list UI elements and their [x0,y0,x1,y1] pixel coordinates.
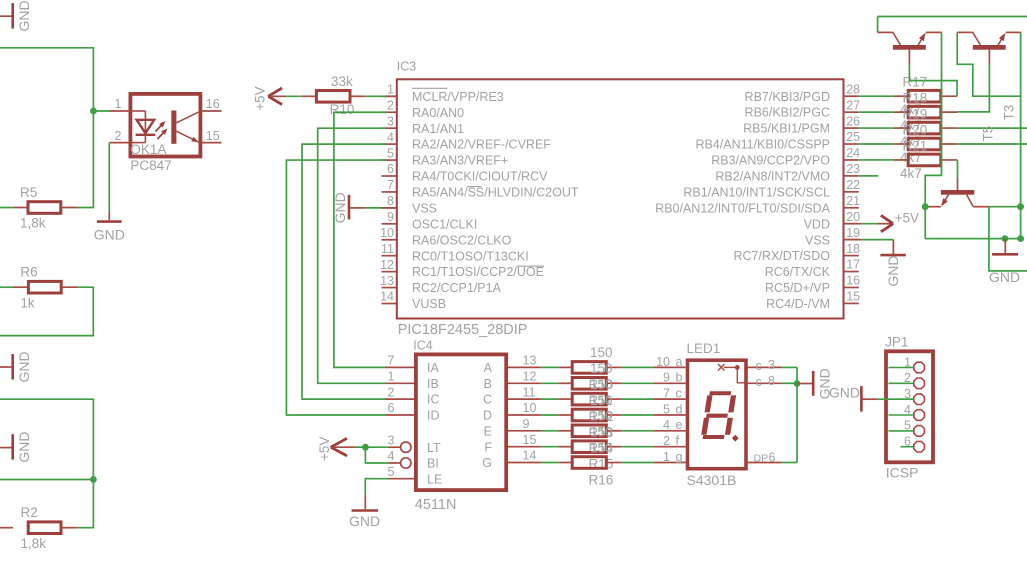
svg-text:RC5/D+/VP: RC5/D+/VP [765,281,830,295]
pin 5 LED1 segment d [654,402,686,416]
resistor R15 150 [541,425,654,472]
pin 2 OK1A [109,129,130,143]
svg-text:5: 5 [388,465,395,479]
pin 10 LED1 segment a [654,355,686,369]
svg-text:3: 3 [768,358,775,372]
wire top net [878,16,1027,18]
transistor T1 [878,17,942,65]
svg-text:MCLR/VPP/RE3: MCLR/VPP/RE3 [412,90,504,104]
pin 23 IC3 RB2/AN8/INT2/VMO [715,162,860,183]
svg-text:14: 14 [523,449,537,463]
optocoupler OK1A box [130,94,200,173]
svg-text:e: e [676,418,683,432]
wire R19 to right edge [957,127,1027,129]
svg-text:16: 16 [846,274,860,288]
resistor R17 4k7 [859,75,957,118]
svg-text:150: 150 [590,425,613,440]
svg-text:12: 12 [380,258,394,272]
node junction right rail [1017,203,1024,210]
svg-text:13: 13 [380,274,394,288]
LED1 S4301B box [687,341,747,488]
svg-text:9: 9 [663,371,670,385]
svg-text:+5V: +5V [252,86,267,110]
pin 26 IC3 RB5/KBI1/PGM [743,114,860,135]
svg-text:D: D [483,409,492,423]
pin 7 IC4 IA [386,354,440,375]
IC U2: IC4 4511N box [413,338,506,512]
svg-text:8: 8 [768,374,775,388]
svg-text:GND: GND [989,269,1020,285]
svg-text:150: 150 [590,377,613,392]
svg-text:a: a [676,355,683,369]
svg-text:8: 8 [387,194,394,208]
svg-text:1,8k: 1,8k [20,216,46,231]
pin 7 IC3 RA5/AN4/SS/HLVDIN/C2OUT [382,178,579,199]
svg-text:28: 28 [846,82,860,96]
ground GND below OK1A [94,222,125,243]
pin 10 IC4 D [483,401,541,422]
transistor Q bottom [928,160,989,207]
svg-text:1: 1 [904,355,911,369]
svg-text:RB2/AN8/INT2/VMO: RB2/AN8/INT2/VMO [715,170,830,184]
svg-text:10: 10 [523,401,537,415]
pin 1 IC3 MCLR/VPP/RE3 [382,83,504,104]
resistor R14 150 [541,409,654,456]
node junction Q emitter [922,203,929,210]
svg-text:RB7/KBI3/PGD: RB7/KBI3/PGD [745,90,830,104]
+5V supply at IC4 [317,437,365,461]
pin 4 IC4 BI [388,449,439,470]
svg-text:15: 15 [523,433,537,447]
svg-text:RB4/AN11/KBI0/CSSPP: RB4/AN11/KBI0/CSSPP [695,138,830,152]
svg-text:15: 15 [846,290,860,304]
pin 13 IC3 RC2/CCP1/P1A [380,274,501,295]
wire R20 to right edge [957,143,1027,145]
pin 15 OK1A [200,129,221,143]
pin 11 IC3 RC0/T1OSO/T13CKI [381,242,529,263]
label T3 [1001,105,1016,121]
svg-text:B: B [484,377,492,391]
svg-text:T3: T3 [1001,105,1016,121]
svg-text:R21: R21 [903,138,928,153]
svg-text:4: 4 [663,418,670,432]
svg-text:LE: LE [427,472,442,486]
connector JP1 box [885,335,933,481]
svg-text:4: 4 [387,130,394,144]
pin 24 IC3 RB3/AN9/CCP2/VPO [711,146,860,167]
wire OK1A pin2 to GND [108,143,110,221]
resistor R16 150 [541,440,654,487]
svg-text:2: 2 [663,434,670,448]
svg-text:22: 22 [846,178,860,192]
label 150 group [590,345,613,360]
svg-text:C: C [483,393,492,407]
svg-text:DP: DP [754,453,769,465]
ground GND below IC4 [349,511,380,530]
svg-text:GND: GND [829,385,860,401]
phototransistor inside OK1A [171,111,200,144]
pin 12 IC3 RC1/T1OSI/CCP2/UOE [380,258,544,279]
pin 1 JP1 [889,355,925,373]
light arrows inside OK1A [156,121,168,139]
svg-text:5: 5 [904,419,911,433]
svg-text:PIC18F2455_28DIP: PIC18F2455_28DIP [398,322,528,338]
svg-text:150: 150 [590,440,613,455]
resistor R18 4k7 [859,91,957,134]
svg-text:R2: R2 [21,505,38,520]
svg-text:10: 10 [380,226,394,240]
pin 14 IC3 VUSB [380,290,446,311]
pin 1 IC4 IB [386,370,439,391]
svg-text:g: g [676,450,683,464]
svg-text:b: b [676,371,683,385]
pin 18 IC3 RC7/RX/DT/SDO [733,242,860,263]
svg-text:R16: R16 [589,472,614,487]
transistor T2 [957,32,1021,64]
wire IC3 pin 5 to IC4 input [286,160,385,415]
svg-text:RC4/D-/VM: RC4/D-/VM [766,297,830,311]
ground GND at LED1 [797,368,833,399]
svg-text:3: 3 [387,114,394,128]
svg-text:33k: 33k [331,74,353,89]
pin 4 JP1 [889,403,925,421]
svg-text:RA5/AN4/SS/HLVDIN/C2OUT: RA5/AN4/SS/HLVDIN/C2OUT [412,186,579,200]
svg-text:9: 9 [523,417,530,431]
wire LED1 cathodes to GND [782,367,797,462]
pin 10 IC3 RA6/OSC2/CLKO [380,226,512,247]
resistor R20 4k7 [859,122,957,165]
svg-text:LED1: LED1 [687,341,721,356]
svg-text:F: F [484,440,492,454]
resistor R10 150 [541,362,654,393]
svg-text:S4301B: S4301B [687,472,737,488]
svg-text:RC6/TX/CK: RC6/TX/CK [765,265,831,279]
svg-text:1: 1 [387,83,394,97]
svg-text:JP1: JP1 [885,335,908,350]
pin 2 JP1 [889,371,925,389]
svg-text:6: 6 [769,451,776,465]
resistor R10 33k [268,74,397,117]
svg-text:ID: ID [427,409,440,423]
wire junction to OK1A pin 1 [93,110,109,112]
svg-text:150: 150 [590,361,613,376]
ground GND at IC3 pin 19 [844,240,906,287]
svg-text:GND: GND [16,431,32,462]
resistor R2 [0,505,77,551]
wire Q collector down-right [989,207,1027,271]
svg-text:11: 11 [523,385,536,399]
svg-text:GND: GND [885,255,901,286]
pin 3 LED1 common c [748,358,782,373]
svg-text:18: 18 [846,242,860,256]
resistor R12 150 [541,377,654,424]
wire IC3 pin 2 to IC4 input [334,112,386,367]
pin 16 IC3 RC5/D+/VP [765,274,860,295]
svg-text:1: 1 [663,450,670,464]
svg-text:c: c [676,387,682,401]
svg-text:5: 5 [663,402,670,416]
+5V supply at IC3 pin 20 [844,211,920,232]
svg-text:150: 150 [590,393,613,408]
svg-text:4: 4 [388,449,395,463]
pin 28 IC3 RB7/KBI3/PGD [745,82,861,103]
node junction at wire to OK1A [90,108,97,115]
svg-text:GND: GND [16,0,32,31]
wire T2 collector jog [957,32,1020,96]
resistor R5 [0,185,77,231]
svg-text:IB: IB [427,377,439,391]
svg-text:RB6/KBI2/PGC: RB6/KBI2/PGC [745,106,830,120]
svg-text:IC4: IC4 [413,338,433,352]
svg-text:12: 12 [523,370,537,384]
svg-text:26: 26 [846,114,860,128]
svg-text:10: 10 [656,355,670,369]
svg-text:RC0/T1OSO/T13CKI: RC0/T1OSO/T13CKI [412,249,529,263]
resistor R13 150 [541,393,654,440]
svg-text:13: 13 [523,354,537,368]
svg-text:150: 150 [590,345,613,360]
wire IC3 pin 23 stub [859,175,878,177]
pin 4 IC3 RA2/AN2/VREF-/CVREF [382,130,552,151]
svg-text:OSC1/CLKI: OSC1/CLKI [412,217,477,231]
pin 3 JP1 [889,387,925,405]
svg-text:R18: R18 [903,91,928,106]
svg-text:9: 9 [387,210,394,224]
wire net left edge loop to R2 [0,399,93,528]
svg-text:LT: LT [427,441,441,455]
wire IC3 pin 4 to IC4 input [302,144,386,399]
svg-text:7: 7 [388,354,395,368]
pin 3 IC3 RA1/AN1 [382,114,465,135]
svg-text:d: d [676,402,683,416]
svg-text:A: A [484,361,493,375]
resistor R21 4k7 [859,138,957,181]
+5V supply symbol near R10 [252,86,282,110]
pin 6 JP1 [900,435,924,453]
pin 6 LED1 DP [748,451,782,465]
svg-text:21: 21 [846,194,860,208]
svg-text:OK1A: OK1A [130,142,166,157]
pin 17 IC3 RC6/TX/CK [765,258,860,279]
svg-text:14: 14 [380,290,394,304]
svg-text:GND: GND [16,351,32,382]
pin 2 IC4 IC [386,385,440,406]
LED inside OK1A [130,111,155,143]
pin 2 IC3 RA0/AN0 [382,98,465,119]
svg-text:1,8k: 1,8k [21,536,47,551]
pin 6 IC3 RA4/T0CKI/CIOUT/RCV [382,162,549,183]
pin 9 IC4 E [484,417,541,438]
ground GND left lower [0,431,32,462]
svg-text:2: 2 [115,129,122,143]
svg-text:GND: GND [349,513,380,529]
svg-text:17: 17 [846,258,860,272]
svg-text:R20: R20 [903,122,928,137]
wire Q collector to emitter rail [989,206,1021,208]
svg-text:R5: R5 [20,185,37,200]
svg-text:GND: GND [332,192,348,223]
svg-text:E: E [484,424,492,438]
svg-text:RC7/RX/DT/SDO: RC7/RX/DT/SDO [733,249,830,263]
svg-text:ICSP: ICSP [886,464,919,480]
svg-text:RB0/AN12/INT0/FLT0/SDI/SDA: RB0/AN12/INT0/FLT0/SDI/SDA [655,201,830,215]
resistor R19 4k7 [859,106,957,149]
node junction LED cathode [794,380,801,387]
wire LE to GND [365,479,388,510]
svg-text:IC3: IC3 [397,59,417,73]
pin 1 LED1 segment g [654,450,686,464]
ground GND at JP1 pin 3 [829,385,914,412]
pin 13 IC4 A [484,354,541,375]
svg-text:2: 2 [388,385,395,399]
ground GND at IC3 pin 8 [332,192,397,223]
svg-text:RB5/KBI1/PGM: RB5/KBI1/PGM [743,122,830,136]
svg-text:3: 3 [388,433,395,447]
wire GND rail bottom right [925,238,1020,240]
svg-text:c: c [756,375,762,389]
svg-text:19: 19 [846,226,860,240]
svg-text:RB3/AN9/CCP2/VPO: RB3/AN9/CCP2/VPO [711,154,830,168]
svg-text:IA: IA [427,361,439,375]
svg-text:RB1/AN10/INT1/SCK/SCL: RB1/AN10/INT1/SCK/SCL [683,185,830,199]
svg-text:BI: BI [427,457,439,471]
svg-text:6: 6 [904,435,911,449]
svg-text:2: 2 [387,98,394,112]
svg-text:R6: R6 [20,265,37,280]
svg-text:f: f [676,434,680,448]
pin 2 LED1 segment f [654,434,686,448]
pin 12 IC4 B [484,370,541,391]
wire net from left edge to OK1A pin1 and R5 [0,48,93,208]
svg-text:11: 11 [381,242,394,256]
svg-text:1: 1 [115,97,122,111]
LED1 seven segment digit 8 [701,391,739,441]
ground GND top-left [0,0,32,31]
wire R6 loop to left edge [0,287,93,335]
wire T1 base to R17 [909,64,957,96]
svg-text:R19: R19 [903,106,928,121]
pin 3 IC4 LT [388,433,441,454]
svg-text:1k: 1k [20,295,35,310]
pin 11 IC4 C [483,385,541,406]
pin 8 IC3 VSS [382,194,438,215]
pin 15 IC3 RC4/D-/VM [766,290,860,311]
pin 27 IC3 RB6/KBI2/PGC [745,98,861,119]
resistor R6 [0,265,78,311]
pin 4 LED1 segment e [654,418,686,432]
pin 16 OK1A [200,97,221,111]
svg-text:VDD: VDD [804,217,830,231]
pin 20 IC3 VDD [804,210,861,231]
resistor R11 150 [541,361,654,408]
svg-text:15: 15 [206,129,220,143]
node junction +5V IC4 [362,444,369,451]
svg-text:4511N: 4511N [415,497,457,513]
wire branch to left edge at junction [0,479,93,481]
svg-text:7: 7 [387,178,394,192]
svg-text:IC: IC [427,393,440,407]
svg-text:R17: R17 [903,75,928,90]
wire +5V to LT and BI [365,447,388,463]
svg-text:T5: T5 [980,126,995,142]
pin 21 IC3 RB0/AN12/INT0/FLT0/SDI/SDA [655,194,860,215]
svg-text:2: 2 [904,371,911,385]
svg-text:RC1/T1OSI/CCP2/UOE: RC1/T1OSI/CCP2/UOE [412,265,544,279]
svg-text:VSS: VSS [412,201,437,215]
svg-text:+5V: +5V [317,437,332,461]
pin 9 LED1 segment b [654,371,686,385]
svg-text:27: 27 [846,98,860,112]
ground GND left mid [0,351,32,382]
pin 25 IC3 RB4/AN11/KBI0/CSSPP [695,130,860,151]
svg-text:16: 16 [206,97,220,111]
svg-text:150: 150 [590,409,613,424]
pin 5 IC3 RA3/AN3/VREF+ [382,146,509,167]
svg-text:G: G [482,456,492,470]
pin 22 IC3 RB1/AN10/INT1/SCK/SCL [683,178,860,199]
svg-text:6: 6 [388,401,395,415]
IC U1: IC3 PIC18F2455_28DIP box [397,59,844,338]
pin 9 IC3 OSC1/CLKI [382,210,478,231]
svg-text:RC2/CCP1/P1A: RC2/CCP1/P1A [412,281,502,295]
svg-text:RA4/T0CKI/CIOUT/RCV: RA4/T0CKI/CIOUT/RCV [412,170,548,184]
ground GND bottom right [989,235,1024,285]
svg-text:20: 20 [846,210,860,224]
svg-text:GND: GND [94,226,125,242]
svg-text:4: 4 [904,403,911,417]
node junction left [90,476,97,483]
pin 19 IC3 VSS [805,226,860,247]
svg-text:6: 6 [387,162,394,176]
wire T2 base to R18 [957,64,989,112]
pin 14 IC4 G [482,449,541,470]
pin 6 IC4 ID [386,401,440,422]
svg-text:5: 5 [387,146,394,160]
svg-text:23: 23 [846,162,860,176]
pin 5 IC4 LE [388,465,443,486]
svg-text:+5V: +5V [895,211,919,226]
svg-text:1: 1 [388,370,395,384]
svg-text:c: c [756,359,762,373]
pin 15 IC4 F [484,433,541,454]
svg-text:RA3/AN3/VREF+: RA3/AN3/VREF+ [412,154,508,168]
svg-text:RA1/AN1: RA1/AN1 [412,122,464,136]
svg-text:7: 7 [663,387,670,401]
overlines on IC3 left pin labels [412,88,544,266]
LED1 cathode indicator [718,364,746,383]
pin 1 OK1A [110,97,131,111]
svg-text:RA2/AN2/VREF-/CVREF: RA2/AN2/VREF-/CVREF [412,138,551,152]
pin 8 LED1 common c [748,374,782,389]
svg-text:VUSB: VUSB [412,297,446,311]
svg-text:PC847: PC847 [130,158,171,173]
pin 5 JP1 [889,419,925,437]
wire T2 emitter down [1020,32,1022,238]
svg-text:RA6/OSC2/CLKO: RA6/OSC2/CLKO [412,233,512,247]
svg-text:4k7: 4k7 [900,166,922,181]
svg-text:RA0/AN0: RA0/AN0 [412,106,464,120]
wire IC3 pin 3 to IC4 input [318,128,386,383]
svg-text:25: 25 [846,130,860,144]
svg-text:24: 24 [846,146,860,160]
wire T1 emitter to GND rail [925,32,941,238]
pin 7 LED1 segment c [654,387,686,401]
svg-text:VSS: VSS [805,233,830,247]
label T5 [980,126,995,142]
